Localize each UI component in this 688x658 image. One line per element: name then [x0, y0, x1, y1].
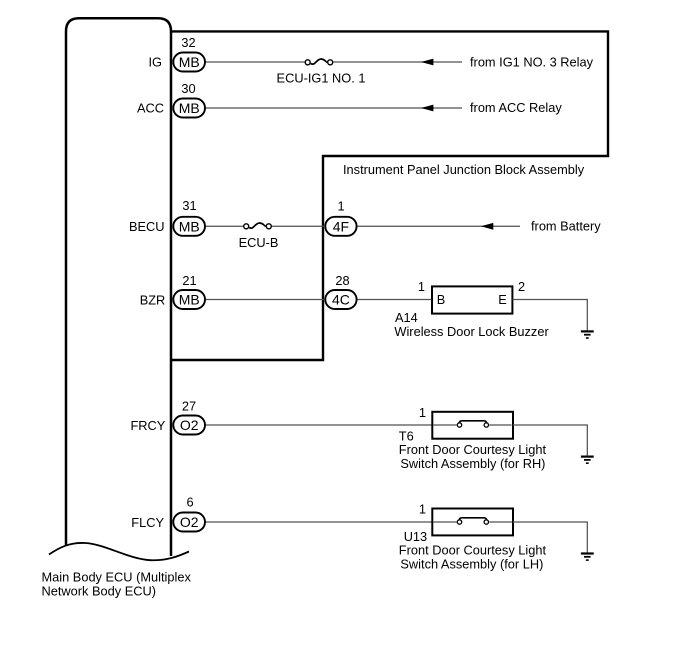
wire U13 to ground	[513, 522, 588, 553]
ECU Main Body ECU outline	[66, 18, 171, 556]
connector O2 (FRCY)	[173, 416, 205, 435]
svg-text:Wireless Door Lock Buzzer: Wireless Door Lock Buzzer	[394, 324, 549, 339]
svg-text:6: 6	[186, 495, 193, 510]
svg-text:32: 32	[181, 35, 195, 50]
wire FLCY row	[206, 521, 433, 523]
wire BZR row	[206, 299, 325, 301]
svg-text:2: 2	[518, 279, 525, 294]
svg-text:28: 28	[335, 273, 349, 288]
connector O2 (FLCY)	[173, 513, 205, 532]
connector MB (ACC)	[173, 99, 205, 118]
svg-text:A14: A14	[395, 310, 418, 325]
switch T6 box	[432, 412, 513, 439]
fuse ECU-B	[239, 223, 279, 250]
connector MB (BZR)	[173, 290, 205, 309]
svg-text:from Battery: from Battery	[531, 219, 601, 234]
svg-text:Network Body ECU): Network Body ECU)	[42, 584, 157, 599]
svg-text:IG: IG	[148, 55, 162, 70]
svg-text:30: 30	[181, 81, 195, 96]
connector 4F	[325, 217, 356, 236]
svg-text:4F: 4F	[333, 218, 349, 234]
connector MB (IG)	[173, 53, 205, 72]
svg-text:from IG1 NO. 3 Relay: from IG1 NO. 3 Relay	[470, 54, 594, 69]
svg-text:Instrument Panel Junction Bloc: Instrument Panel Junction Block Assembly	[343, 162, 585, 177]
svg-text:Switch Assembly (for RH): Switch Assembly (for RH)	[400, 456, 545, 471]
ground (U13)	[581, 554, 594, 561]
wire FRCY row	[206, 424, 433, 426]
fuse ECU-IG1 NO. 1	[277, 59, 366, 86]
arrow from ACC Relay	[421, 105, 434, 112]
svg-text:MB: MB	[179, 100, 200, 116]
arrow from Battery	[481, 223, 494, 230]
wire BECU row	[206, 225, 325, 227]
svg-text:27: 27	[182, 399, 196, 414]
switch contacts T6	[434, 421, 512, 427]
connector 4C	[325, 290, 356, 309]
svg-text:4C: 4C	[332, 292, 350, 308]
svg-text:MB: MB	[179, 54, 200, 70]
svg-text:MB: MB	[179, 218, 200, 234]
svg-text:1: 1	[337, 198, 344, 213]
svg-text:Main Body ECU (Multiplex: Main Body ECU (Multiplex	[42, 570, 192, 585]
svg-text:ACC: ACC	[137, 101, 164, 116]
wire ACC row	[206, 107, 463, 109]
svg-text:1: 1	[419, 405, 426, 420]
ECU torn bottom wavy edge	[49, 543, 189, 560]
svg-text:1: 1	[418, 279, 425, 294]
ground (buzzer)	[581, 331, 594, 338]
wire 4C to buzzer	[358, 299, 432, 301]
svg-text:BECU: BECU	[129, 219, 165, 234]
switch contacts U13	[434, 518, 513, 524]
svg-text:21: 21	[182, 273, 196, 288]
svg-text:O2: O2	[180, 417, 199, 433]
svg-text:B: B	[437, 292, 446, 307]
svg-text:31: 31	[182, 198, 196, 213]
svg-text:O2: O2	[180, 514, 199, 530]
buzzer A14 box	[432, 286, 512, 313]
svg-text:FLCY: FLCY	[131, 515, 164, 530]
svg-text:BZR: BZR	[140, 292, 166, 307]
wire from 4F to battery arrow	[358, 225, 521, 227]
switch U13 box	[432, 509, 513, 536]
wire buzzer to ground	[513, 300, 588, 331]
svg-text:Switch Assembly (for LH): Switch Assembly (for LH)	[400, 556, 543, 571]
wire T6 to ground	[513, 425, 588, 456]
ground (T6)	[581, 457, 594, 464]
svg-text:1: 1	[419, 501, 426, 516]
svg-text:from ACC Relay: from ACC Relay	[470, 100, 562, 115]
svg-text:FRCY: FRCY	[130, 418, 165, 433]
svg-text:ECU-B: ECU-B	[239, 235, 279, 250]
svg-text:MB: MB	[179, 292, 200, 308]
connector MB (BECU)	[173, 217, 205, 236]
wire IG row	[206, 61, 463, 63]
svg-text:E: E	[498, 292, 507, 307]
junction block Instrument Panel Junction Block Assembly outline	[171, 31, 608, 360]
svg-text:ECU-IG1 NO. 1: ECU-IG1 NO. 1	[277, 71, 366, 86]
arrow from IG1 NO. 3 Relay	[421, 59, 434, 66]
svg-text:Front Door Courtesy Light: Front Door Courtesy Light	[399, 543, 547, 558]
